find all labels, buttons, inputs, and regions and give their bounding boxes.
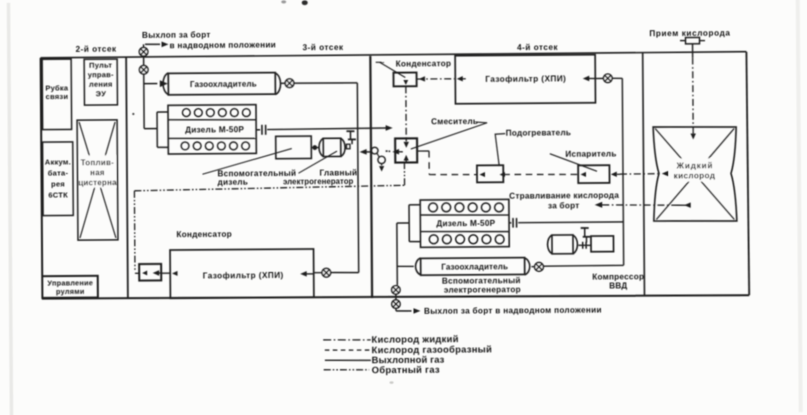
svg-text:Газофильтр (ХПИ): Газофильтр (ХПИ) [485,74,566,84]
enclosure right border [746,52,749,296]
wire east downcomer bottom to valve [544,264,624,267]
svg-text:Выхлоп за борт: Выхлоп за борт [142,29,211,40]
wire evaporator to oxygen tank dash-dot [620,173,658,175]
deck fitting oxygen intake [680,37,705,43]
text Пульт управления ЭУ [88,61,115,98]
svg-text:Смеситель: Смеситель [431,117,478,126]
svg-text:Газоохладитель: Газоохладитель [190,80,257,89]
text в надводном положении [170,40,277,50]
scan speck top [281,0,308,5]
gas filter 1 right inlet arrow [300,271,314,277]
svg-text:электрогенератор: электрогенератор [283,177,354,187]
legend text Кислород жидкий [371,333,458,345]
wire return gas mixer drop [403,162,405,185]
wire condenser2 down to mixer dash-dot [403,86,409,148]
box Испаритель [578,165,609,183]
label 2-й отсек [76,44,117,53]
arrow exhaust overboard top [145,42,169,48]
page edge shading right [796,0,803,412]
oxygen tank X cross [655,128,735,220]
blower drain arrow down [379,164,384,172]
svg-text:Конденсатор: Конденсатор [176,230,232,239]
svg-text:3-й отсек: 3-й отсек [303,43,344,52]
wire between exhaust valves 2 [395,294,397,299]
text Рубка связи [45,84,69,102]
box Газофильтр ХПИ (4th comp) [455,55,595,104]
legend text Кислород газообразный [372,343,493,355]
arrow into tank notch [662,171,669,177]
hull discharge symbol above generator [346,131,355,144]
wire east downcomer x623 [622,78,623,265]
wire diesel 2 exhaust east [518,221,623,224]
enclosure bottom border [42,293,749,300]
svg-text:бата-: бата- [48,168,69,177]
condenser 1 internal arrows [142,270,161,276]
box Смеситель [395,138,417,162]
bulkhead between 4th compartment and oxygen hold [643,53,645,296]
svg-text:4-й отсек: 4-й отсек [517,43,558,52]
box Конденсатор (4th comp) [393,73,416,87]
wire exhaust to downcomer [294,82,357,85]
legend line Выхлопной газ [325,359,371,362]
bulkhead between 3rd and 4th compartments [370,56,372,298]
wire riser to diesel [144,128,157,130]
box Вспомогательный дизель [276,136,312,159]
svg-text:цистерна: цистерна [78,178,117,187]
text Выхлоп за борт в надводном положении (bottom) [424,304,602,315]
box Управление рулями [42,276,98,298]
wire exhaust downcomer x358 [357,83,358,273]
diesel 2 left bracket [409,205,420,242]
page gutter shading left [7,3,14,415]
diesel 1 cylinder circles top row [182,108,250,117]
text Конденсатор (4th comp) [396,59,452,68]
valve hull exhaust upper [139,47,148,56]
valve after gas cooler 1 [285,79,294,88]
box Пульт управления ЭУ [84,59,117,105]
svg-text:2-й отсек: 2-й отсек [76,44,117,53]
valve hull exhaust 2 upper [392,286,400,294]
text Жидкий кислород [669,158,719,181]
svg-text:Дизель М-50Р: Дизель М-50Р [436,219,495,228]
svg-text:в надводном положении: в надводном положении [170,40,277,50]
return arrow into downcomer [360,149,371,155]
arrow Стравливание left end [595,202,603,208]
evaporator internal arrow [580,172,586,177]
mixer left arrow [392,149,402,155]
valve after gas cooler 2 [535,262,544,271]
wire condenser2 to gas filter 2 dash-dot [417,76,455,82]
condenser 2 internal arrow [403,80,408,85]
leader Конденсатор 2 [376,62,406,78]
svg-text:Дизель М-50Р: Дизель М-50Р [185,125,244,134]
wire Стравливание кислорода dash-dot [602,202,691,208]
svg-text:кислород: кислород [674,171,716,180]
svg-text:ЭУ: ЭУ [96,89,107,98]
leader Подогреватель [495,134,505,166]
text Газоохладитель 1 [190,80,257,89]
coupling aux diesel to generator [311,145,318,150]
text Газоохладитель 2 [441,262,508,271]
diesel 2 cylinder circles bottom row [429,234,504,244]
gas filter 2 right arrow [583,76,596,82]
enclosure top border [41,52,747,58]
box Компрессор ВВД [591,236,614,252]
box Подогреватель [477,165,503,182]
text Выхлоп за борт [142,29,211,40]
leader Главный электрогенератор [298,151,337,173]
scan speck bottom [390,381,394,383]
wire exhaust 2 outlet [396,308,421,314]
svg-text:Испаритель: Испаритель [565,150,616,159]
leader Смеситель [411,122,488,149]
text Вспомогательный электрогенератор (label) [442,276,521,295]
svg-text:рея: рея [51,179,65,188]
text Аккум. батарея 6СТК [45,157,71,199]
text Испаритель [565,150,616,159]
legend line Кислород газообразный [325,349,370,352]
legend text Обратный газ [372,364,440,375]
text Топливная цистерна [78,155,117,187]
wire filter 2 to valve [595,77,603,79]
diesel 1 right coupling [256,125,266,135]
vessel Главный электрогенератор [319,138,345,157]
text Управление рулями [47,278,93,296]
heater internal arrows [479,172,505,177]
vessel Газоохладитель (4th comp) [416,257,530,275]
svg-text:Вспомогательный: Вспомогательный [442,276,521,286]
enclosure left border (2nd compartment wall) [41,58,43,299]
svg-text:рулями: рулями [56,287,85,296]
valve hull exhaust lower [139,65,148,74]
text Подогреватель [506,128,572,137]
hull discharge symbol above compressor [581,228,591,243]
engine block Дизель М-50Р (3rd comp) [168,105,256,154]
svg-text:связи: связи [46,92,69,101]
svg-text:за борт: за борт [548,200,580,210]
wire filter 1 to valve [314,272,322,274]
svg-text:ВВД: ВВД [609,281,627,290]
gas filter 1 left inlet arrow [172,271,178,276]
text Прием кислорода [649,29,730,39]
text Смеситель [431,117,478,126]
legend line Обратный газ [324,368,369,371]
wire riser to diesel 2 bracket [397,222,409,224]
valve hull exhaust 2 lower [392,300,400,308]
svg-text:Стравливание кислорода: Стравливание кислорода [509,191,619,201]
label 3-й отсек [303,43,344,52]
wire riser to cooler 2 [397,265,414,267]
svg-text:Пульт: Пульт [89,61,112,70]
wire cooler 2 to valve [531,266,534,268]
wire mixer to heater dashed [417,151,477,175]
fitting generator right [346,144,350,149]
svg-text:ления: ления [89,80,113,89]
coupling capsule to compressor [578,242,591,249]
svg-text:Газоохладитель: Газоохладитель [441,262,508,271]
box Газофильтр ХПИ (3rd comp) [170,249,314,298]
diesel 2 right coupling [509,218,517,228]
wire valve to east downcomer [612,77,622,79]
valve after gas filter 1 [322,268,331,277]
blower circle lower [377,153,385,163]
box Рубка связи [42,59,72,130]
leader Вспомогательный дизель [202,149,292,175]
fuel tank hourglass lines [79,122,116,239]
text Дизель М-50Р (1) [185,125,244,134]
box Топливная цистерна [77,120,118,240]
label 4-й отсек [517,43,558,52]
svg-text:электрогенератор: электрогенератор [444,285,521,295]
text Компрессор ВВД [592,272,644,290]
svg-text:Выхлоп за борт в надводном пол: Выхлоп за борт в надводном положении [424,304,602,315]
bulkhead between 2nd and 3rd compartments [126,57,128,298]
wire exhaust riser [143,44,146,128]
diesel 2 cylinder circles top row [429,202,504,212]
svg-text:Жидкий: Жидкий [676,161,714,170]
wire oxygen intake dash-dot [690,44,696,140]
box Конденсатор (3rd comp) [139,264,161,281]
blower circle upper [371,147,378,154]
svg-text:Газофильтр (ХПИ): Газофильтр (ХПИ) [203,271,284,281]
wire condenser to gas filter 1 [161,272,170,274]
wire return gas into condenser [135,272,139,274]
wire riser to gas cooler [144,80,168,87]
text Вспомогательный дизель [217,169,296,187]
wire diesel 1 exhaust to mixer [267,125,393,132]
vessel compressor drive capsule [548,235,578,254]
valve after gas filter 2 [603,74,612,83]
leader Испаритель [550,153,597,171]
wire heater to evaporator dashed [503,173,578,176]
svg-text:Аккум.: Аккум. [45,157,71,166]
box Аккум. батарея 6СТК [43,142,74,216]
legend line Кислород жидкий [323,339,371,342]
text Газофильтр (ХПИ) 2 [485,74,566,84]
engine block Дизель М-50Р (4th comp) [420,199,509,247]
svg-text:Конденсатор: Конденсатор [396,59,452,68]
diesel 1 left bracket [157,112,168,147]
svg-text:Обратный газ: Обратный газ [372,364,440,375]
svg-text:дизель: дизель [218,178,249,187]
text Дизель М-50Р (2) [436,219,495,228]
wire return gas horizontal [134,185,404,191]
diesel 1 cylinder circles bottom row [181,142,249,151]
text Конденсатор (3rd comp) [176,230,232,239]
svg-text:Топлив-: Топлив- [81,158,114,167]
evaporator right inlet arrow [611,172,620,177]
wire cooler to valve [281,82,285,84]
svg-text:6СТК: 6СТК [48,190,68,199]
wire return gas left drop [133,191,136,272]
scan speck mid-left [132,113,134,115]
gas filter 2 left arrow [457,76,466,81]
wire exhaust riser 2 [396,223,398,285]
svg-text:управ-: управ- [88,70,114,79]
svg-text:Подогреватель: Подогреватель [506,128,572,137]
vessel Газоохладитель (3rd comp) [163,72,281,95]
text Газофильтр (ХПИ) 1 [203,271,284,281]
wire downcomer to filter valve [331,271,359,273]
small marks at mixer inlet [386,150,391,152]
text Главный электрогенератор [283,168,357,186]
mixer bottom-up arrow [404,155,409,163]
liquid oxygen tank outline [653,126,737,221]
svg-text:ная: ная [90,168,105,177]
legend text Выхлопной газ [372,354,445,366]
text Стравливание кислорода [509,191,619,211]
